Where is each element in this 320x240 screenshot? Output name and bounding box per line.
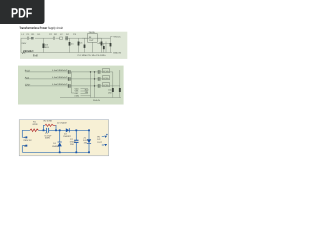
svg-text:+5V DC: +5V DC [113, 36, 121, 39]
svg-text:GND 0V: GND 0V [93, 99, 101, 102]
svg-text:R2 470K: R2 470K [44, 120, 53, 123]
svg-text:OUT: OUT [97, 141, 102, 144]
svg-text:C4 100n C5 10u C6 100n: C4 100n C5 10u C6 100n [78, 54, 107, 57]
svg-text:230V: 230V [22, 42, 27, 45]
svg-text:470R: 470R [32, 123, 38, 126]
svg-text:PDF: PDF [11, 5, 32, 20]
svg-text:D2 1N4007: D2 1N4007 [57, 121, 68, 124]
svg-text:GND 0V: GND 0V [113, 52, 122, 55]
svg-text:1N4007: 1N4007 [63, 135, 71, 138]
svg-text:10u: 10u [108, 88, 111, 91]
svg-text:1N4007: 1N4007 [52, 145, 60, 148]
svg-text:DC: DC [97, 138, 101, 141]
svg-text:25V: 25V [70, 143, 74, 146]
svg-text:230VAC: 230VAC [23, 50, 34, 53]
svg-text:OUT: OUT [89, 39, 94, 42]
svg-text:COM: COM [75, 95, 80, 98]
svg-text:Transformerless Power Supply c: Transformerless Power Supply circuit [19, 26, 63, 30]
svg-text:400V: 400V [45, 137, 51, 140]
svg-text:230V AC: 230V AC [23, 139, 32, 142]
